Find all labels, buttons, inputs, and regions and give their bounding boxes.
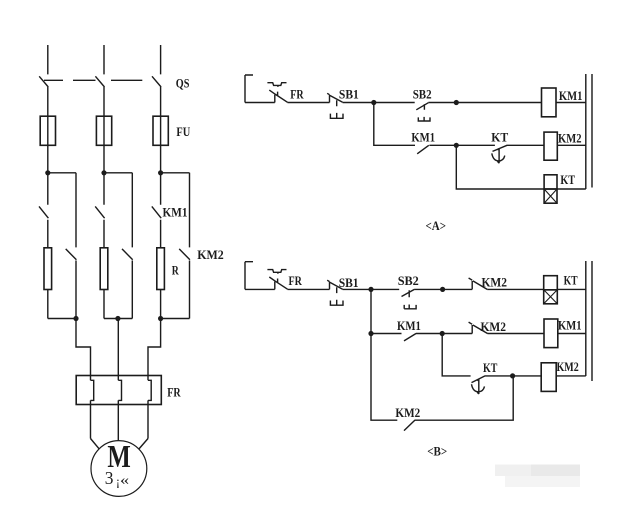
svg-text:KM2: KM2 bbox=[395, 405, 420, 420]
svg-text:KM2: KM2 bbox=[481, 319, 507, 334]
svg-text:3: 3 bbox=[105, 468, 114, 488]
svg-text:KT: KT bbox=[564, 273, 578, 288]
svg-text:KM2: KM2 bbox=[197, 247, 224, 262]
svg-text:KT: KT bbox=[483, 360, 498, 375]
svg-text:FR: FR bbox=[290, 87, 304, 102]
svg-text:FR: FR bbox=[167, 384, 181, 399]
svg-text:SB2: SB2 bbox=[413, 86, 432, 101]
svg-text:<A>: <A> bbox=[426, 218, 447, 233]
svg-text:KM1: KM1 bbox=[558, 318, 582, 333]
svg-text:SB2: SB2 bbox=[398, 273, 419, 288]
svg-text:FR: FR bbox=[289, 273, 303, 288]
svg-text:SB1: SB1 bbox=[339, 275, 359, 290]
svg-text:KT: KT bbox=[491, 130, 508, 145]
svg-text:R: R bbox=[172, 262, 179, 277]
svg-text:KT: KT bbox=[560, 172, 575, 187]
svg-text:KM2: KM2 bbox=[558, 131, 582, 146]
svg-text:SB1: SB1 bbox=[339, 87, 359, 102]
svg-text:KM1: KM1 bbox=[397, 318, 421, 333]
svg-text:KM1: KM1 bbox=[559, 88, 583, 103]
svg-text:KM2: KM2 bbox=[557, 359, 579, 374]
svg-text:KM2: KM2 bbox=[482, 274, 508, 289]
svg-text:QS: QS bbox=[176, 76, 190, 91]
svg-text:KM1: KM1 bbox=[411, 129, 435, 144]
svg-text:<B>: <B> bbox=[427, 443, 447, 458]
svg-text:KM1: KM1 bbox=[163, 204, 188, 219]
svg-text:«: « bbox=[120, 472, 129, 488]
svg-text:FU: FU bbox=[176, 124, 190, 139]
